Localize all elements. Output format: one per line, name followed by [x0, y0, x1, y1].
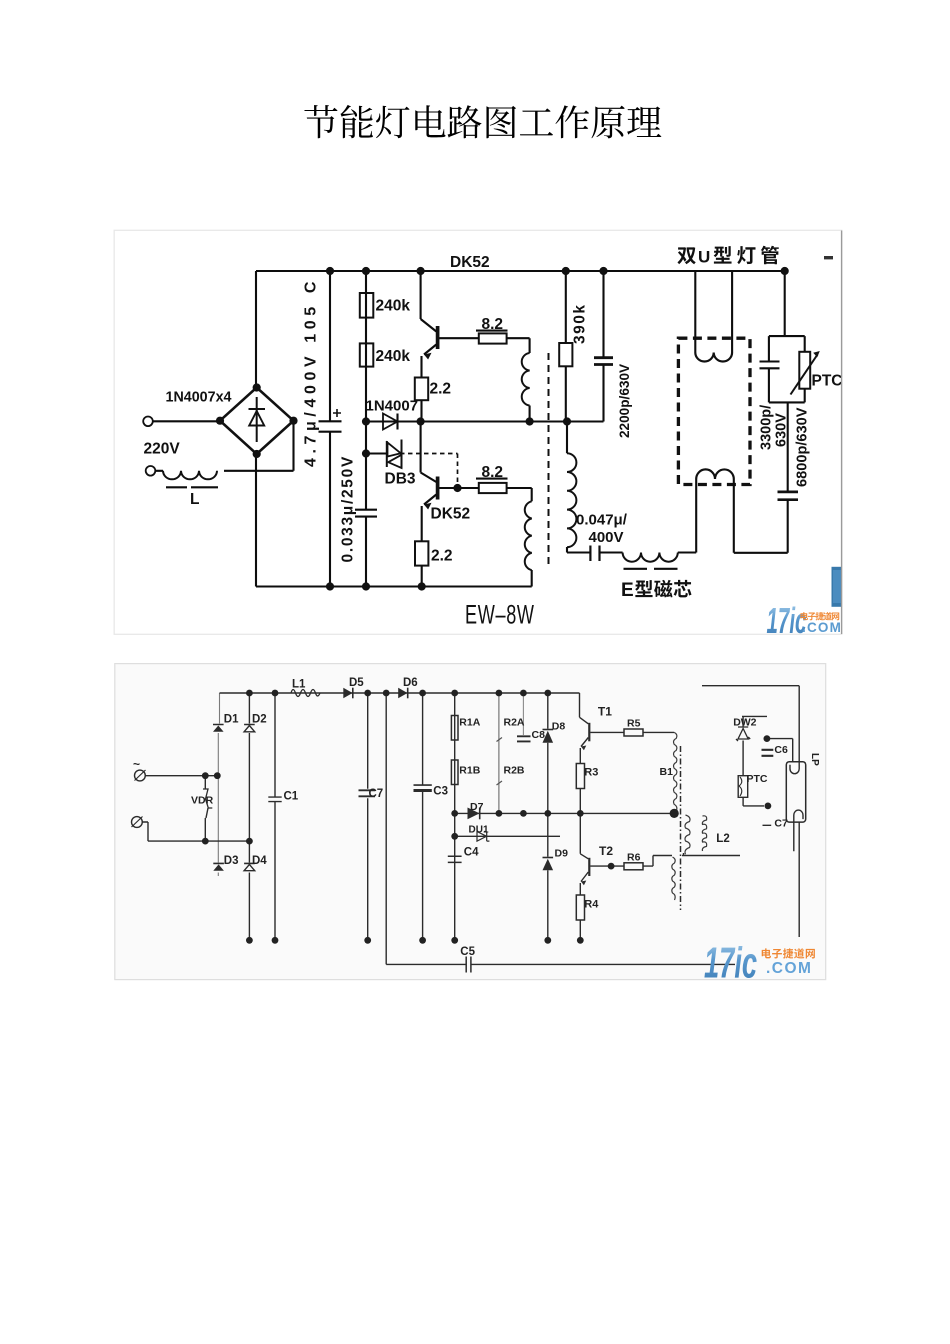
svg-text:3300p/: 3300p/	[759, 405, 775, 450]
svg-text:R3: R3	[584, 767, 598, 779]
svg-text:D8: D8	[552, 721, 566, 733]
svg-text:630V: 630V	[774, 413, 790, 447]
svg-text:VDR: VDR	[191, 795, 214, 807]
svg-text:R2B: R2B	[504, 765, 525, 777]
svg-text:D4: D4	[252, 855, 267, 867]
svg-text:R6: R6	[627, 852, 641, 864]
svg-text:LP: LP	[809, 753, 820, 766]
svg-text:0.033μ/250V: 0.033μ/250V	[340, 455, 357, 562]
svg-text:17ic: 17ic	[704, 938, 757, 987]
svg-text:D9: D9	[555, 848, 569, 860]
svg-text:R1A: R1A	[459, 717, 480, 729]
svg-text:L: L	[190, 491, 199, 508]
svg-text:PTC: PTC	[747, 773, 768, 785]
svg-text:R2A: R2A	[504, 717, 525, 729]
svg-text:C7: C7	[369, 788, 384, 800]
svg-text:DU1: DU1	[469, 825, 489, 836]
svg-text:D5: D5	[349, 677, 364, 689]
svg-text:R4: R4	[584, 899, 599, 911]
svg-text:DK52: DK52	[450, 254, 490, 271]
svg-text:B1: B1	[660, 766, 674, 778]
svg-text:2.2: 2.2	[430, 381, 452, 398]
svg-text:17ic: 17ic	[767, 601, 807, 642]
svg-text:4.7μ/400V 105 C: 4.7μ/400V 105 C	[303, 277, 320, 467]
svg-text:400V: 400V	[589, 529, 624, 546]
svg-text:1N4007: 1N4007	[366, 398, 419, 415]
svg-text:6800p/630V: 6800p/630V	[795, 407, 811, 487]
svg-text:C6: C6	[774, 744, 788, 756]
svg-text:C3: C3	[433, 786, 448, 798]
svg-text:240k: 240k	[376, 298, 411, 315]
svg-text:220V: 220V	[144, 441, 181, 458]
svg-text:1N4007x4: 1N4007x4	[166, 390, 232, 406]
svg-text:C1: C1	[284, 791, 299, 803]
svg-text:DW2: DW2	[733, 717, 756, 729]
svg-text:.COM: .COM	[802, 620, 842, 635]
svg-text:C7: C7	[774, 818, 788, 830]
svg-text:0.047μ/: 0.047μ/	[576, 512, 628, 529]
svg-text:2.2: 2.2	[431, 548, 453, 565]
svg-text:D6: D6	[403, 677, 418, 689]
svg-text:D3: D3	[224, 855, 239, 867]
svg-text:2200p/630V: 2200p/630V	[617, 364, 632, 438]
svg-text:U: U	[698, 248, 710, 267]
svg-text:C4: C4	[464, 847, 479, 859]
svg-text:T2: T2	[599, 844, 613, 858]
svg-text:R1B: R1B	[459, 765, 480, 777]
svg-text:E: E	[621, 580, 634, 601]
svg-text:390k: 390k	[572, 304, 589, 344]
svg-text:C5: C5	[460, 946, 475, 958]
svg-text:.COM: .COM	[766, 960, 812, 977]
svg-text:D1: D1	[224, 714, 239, 726]
svg-text:240k: 240k	[376, 348, 411, 365]
svg-text:~: ~	[133, 757, 140, 771]
svg-text:PTC: PTC	[812, 373, 843, 390]
svg-text:DB3: DB3	[385, 471, 416, 488]
svg-text:EW–8W: EW–8W	[465, 599, 535, 630]
svg-text:C8: C8	[532, 729, 546, 741]
svg-text:T1: T1	[598, 705, 612, 719]
svg-text:8.2: 8.2	[482, 316, 504, 333]
svg-text:DK52: DK52	[431, 506, 471, 523]
svg-text:R5: R5	[627, 718, 641, 730]
svg-text:L2: L2	[716, 833, 729, 845]
svg-text:8.2: 8.2	[482, 464, 504, 481]
svg-text:D2: D2	[252, 714, 267, 726]
svg-text:L1: L1	[292, 679, 306, 691]
svg-text:D7: D7	[470, 801, 484, 813]
